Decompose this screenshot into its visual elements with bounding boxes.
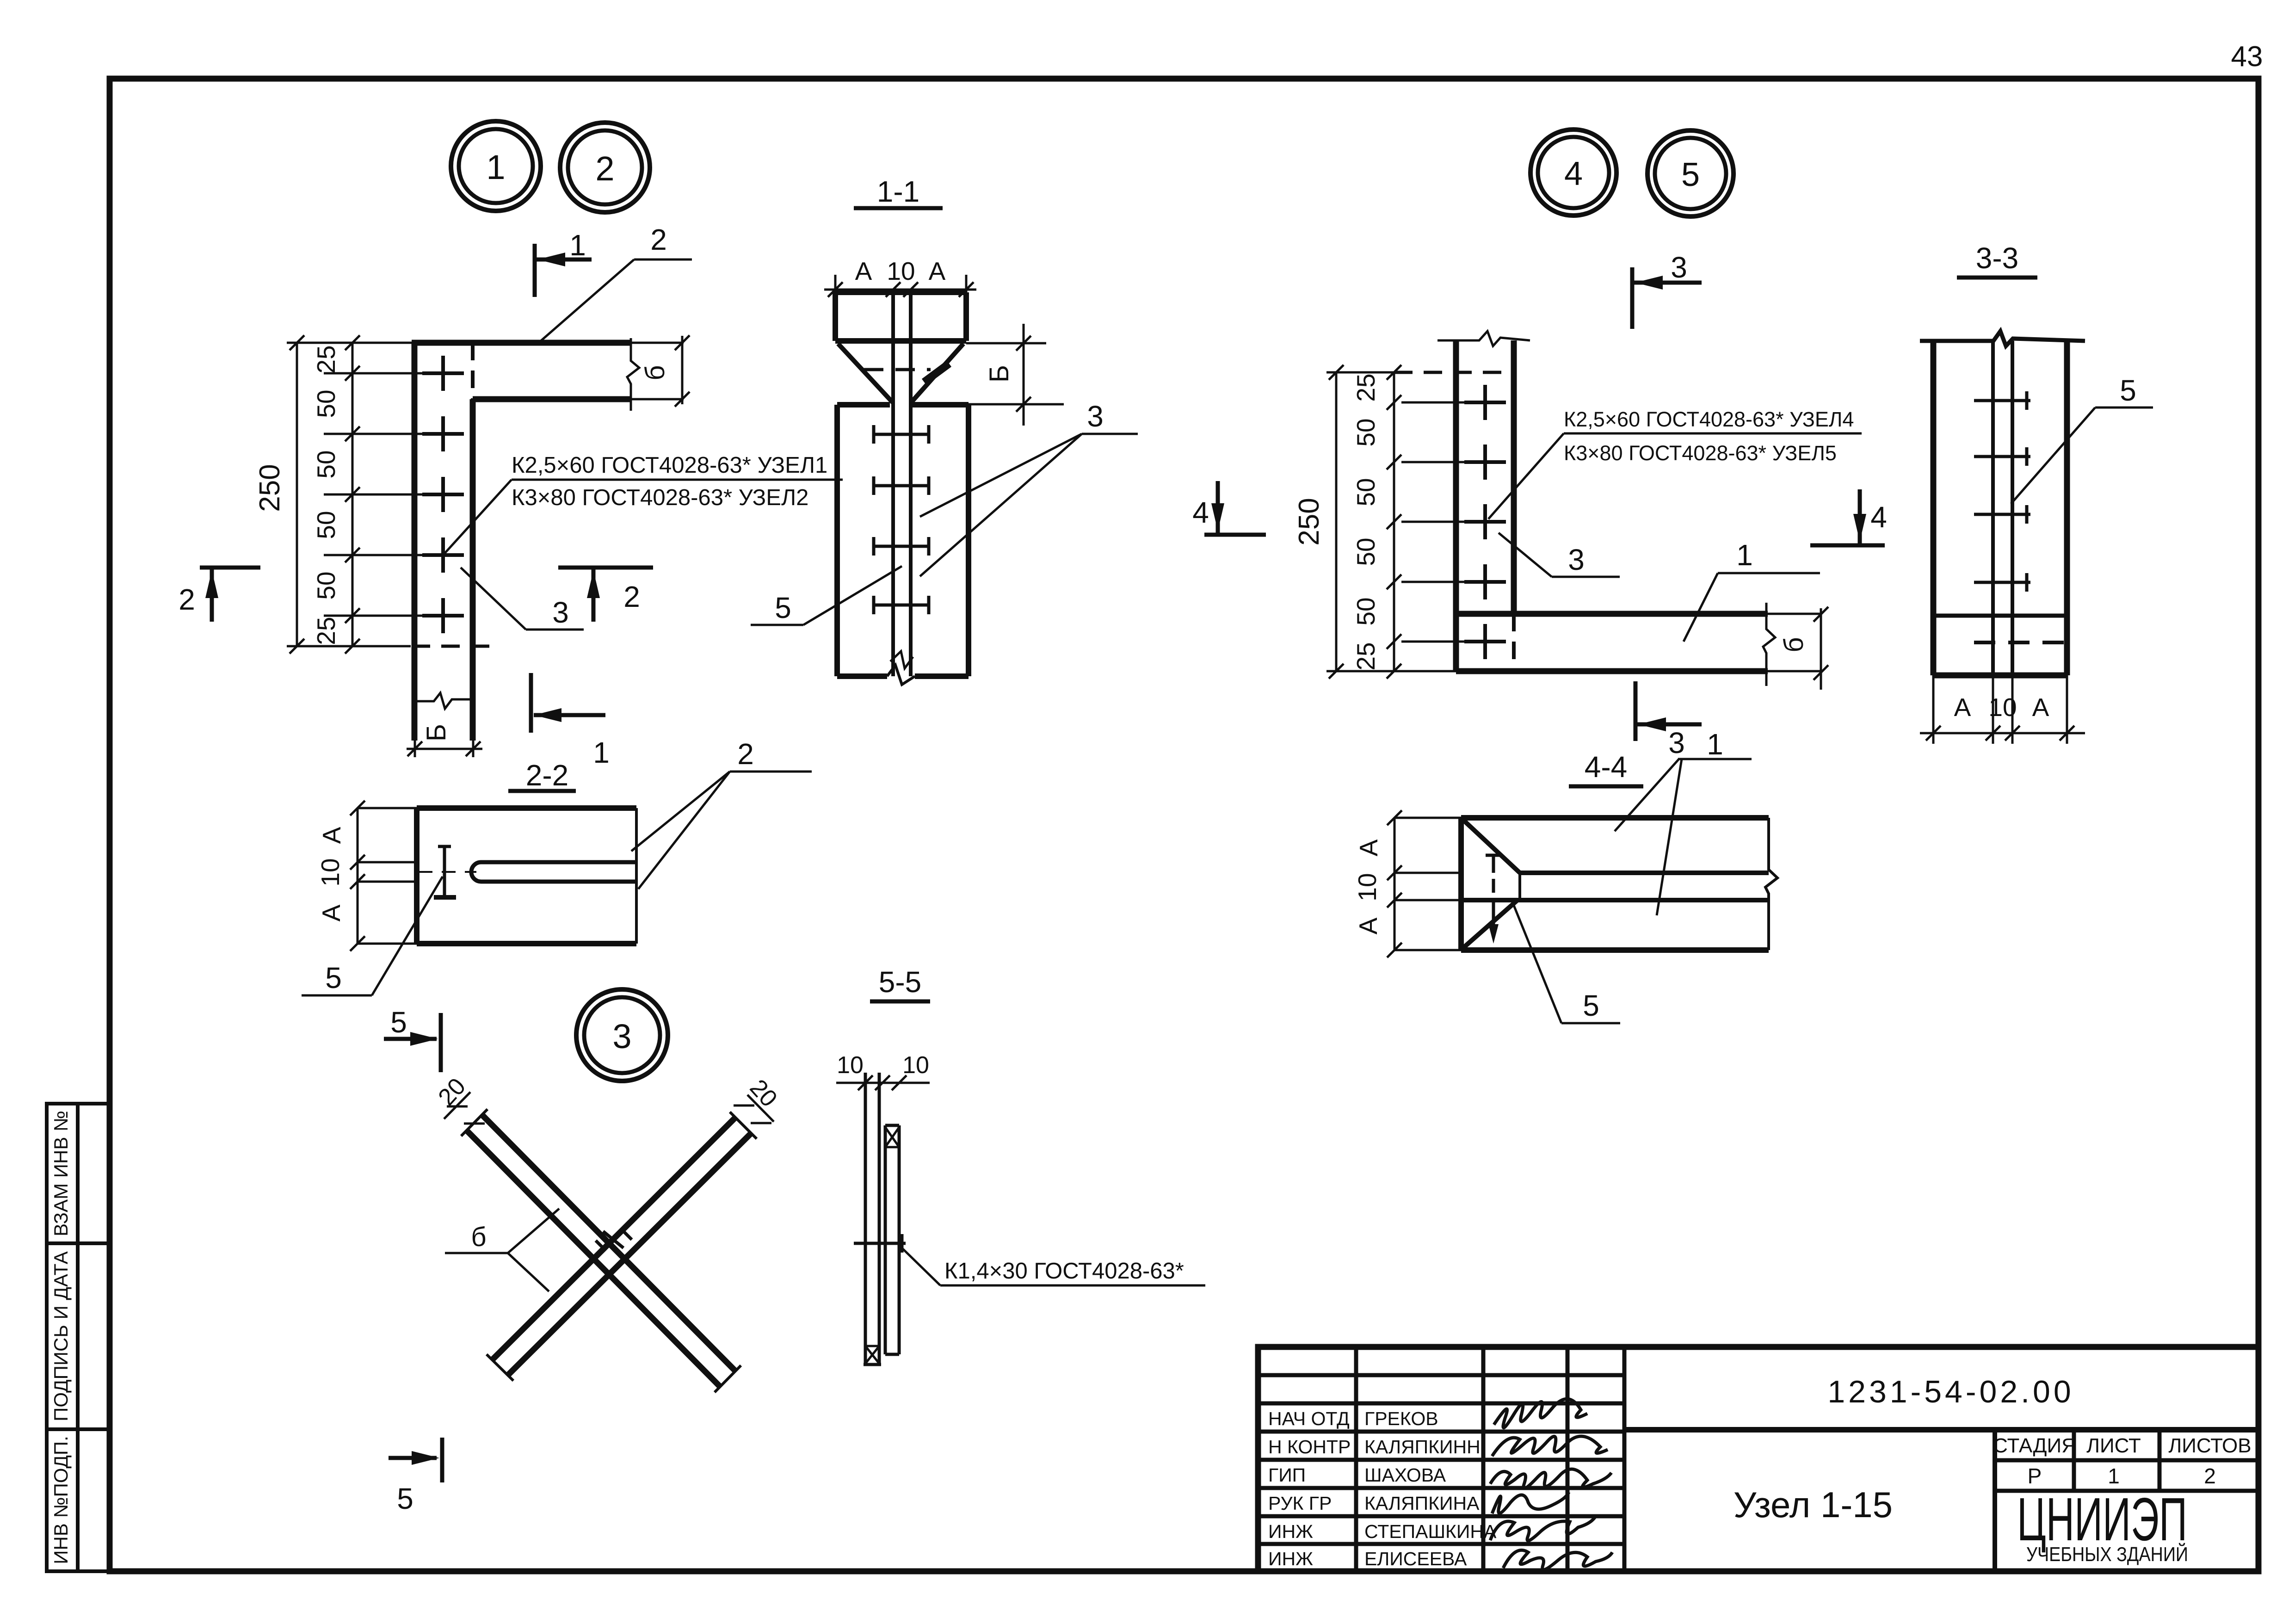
- svg-text:50: 50: [1351, 418, 1380, 446]
- stage table values underline: [1995, 1489, 2258, 1493]
- svg-text:10: 10: [837, 1052, 864, 1079]
- hidden mate line (dashed) at chain bottom: [412, 645, 489, 648]
- brace board B: [492, 1118, 751, 1375]
- svg-text:4-4: 4-4: [1585, 750, 1628, 784]
- svg-text:К1,4×30 ГОСТ4028-63*: К1,4×30 ГОСТ4028-63*: [944, 1259, 1184, 1284]
- hidden nail line (dashed) in bevel: [864, 368, 931, 371]
- svg-text:1: 1: [593, 736, 610, 769]
- leader label 5 (section 2-2): [302, 877, 443, 995]
- nails in board 3 (view 2): [1464, 385, 1506, 659]
- svg-text:1: 1: [569, 228, 586, 262]
- svg-text:3: 3: [1671, 251, 1687, 284]
- signature Степашкина: [1490, 1516, 1596, 1541]
- svg-text:ВЗАМ ИНВ №: ВЗАМ ИНВ №: [50, 1111, 72, 1236]
- left stamp sidebar table: [47, 1104, 110, 1571]
- svg-text:К2,5×60 ГОСТ4028-63* УЗЕЛ4: К2,5×60 ГОСТ4028-63* УЗЕЛ4: [1564, 408, 1854, 431]
- nail (section 2-2): [434, 846, 456, 897]
- svg-text:3-3: 3-3: [1976, 241, 2019, 275]
- svg-text:25: 25: [312, 345, 340, 373]
- svg-text:10: 10: [902, 1052, 929, 1079]
- nail at brace crossing: [596, 1228, 632, 1252]
- end dim 20 (board B top): [734, 1095, 774, 1123]
- svg-text:А: А: [855, 257, 872, 285]
- detail circle 5: [1647, 130, 1734, 216]
- leader label 5 (section 4-4): [1512, 902, 1620, 1023]
- hidden nail dashed (section 3-3): [1974, 641, 2071, 644]
- board strip (right, section 5-5): [885, 1125, 899, 1354]
- section 3-3 top edge with break: [1920, 331, 2085, 346]
- board 2 in section 1-1: [835, 292, 966, 341]
- svg-text:2: 2: [623, 580, 640, 613]
- bevel edges (section 4-4): [1464, 821, 1520, 947]
- board 3 top break line (view 2): [1437, 331, 1530, 346]
- board 2 right end edge: [681, 336, 684, 404]
- svg-text:2: 2: [179, 583, 195, 616]
- svg-text:б: б: [471, 1222, 486, 1252]
- svg-text:А: А: [1954, 693, 1971, 722]
- svg-text:ЛИСТОВ: ЛИСТОВ: [2168, 1434, 2251, 1457]
- svg-text:Б: Б: [984, 365, 1014, 383]
- svg-text:КАЛЯПКИНН: КАЛЯПКИНН: [1364, 1436, 1481, 1457]
- board A end caps: [461, 1109, 741, 1392]
- svg-text:РУК ГР: РУК ГР: [1268, 1493, 1332, 1514]
- svg-text:50: 50: [1351, 478, 1380, 506]
- svg-text:3: 3: [552, 596, 569, 629]
- leader label 2 (section 2-2): [631, 772, 812, 889]
- nail spec leader (view 1): [443, 480, 512, 555]
- section 4-4 outline: [1461, 818, 1769, 950]
- leader label 5 (section 3-3): [2011, 408, 2153, 504]
- nail spec leader (view 2): [1488, 433, 1564, 519]
- svg-text:А: А: [929, 257, 946, 285]
- nail (section 4-4): [1486, 855, 1501, 930]
- detail circle 3: [576, 989, 668, 1081]
- svg-text:3: 3: [612, 1017, 631, 1056]
- name table row lines: [1258, 1373, 1624, 1377]
- svg-text:5: 5: [1583, 989, 1599, 1022]
- stage table header underline: [1995, 1458, 2258, 1463]
- gusset plate lines (section 4-4): [1462, 873, 1769, 900]
- svg-text:5: 5: [390, 1006, 407, 1039]
- section 2-2 outline: [417, 808, 636, 944]
- svg-text:б: б: [1779, 637, 1809, 652]
- svg-text:1231-54-02.00: 1231-54-02.00: [1827, 1374, 2074, 1409]
- svg-text:5: 5: [2120, 374, 2136, 407]
- board 2 plan outline: [412, 343, 684, 399]
- board 3 break symbol: [414, 693, 473, 709]
- svg-text:К2,5×60 ГОСТ4028-63* УЗЕЛ1: К2,5×60 ГОСТ4028-63* УЗЕЛ1: [512, 453, 827, 478]
- gusset bottom break: [890, 651, 913, 668]
- svg-text:Б: Б: [421, 724, 451, 741]
- svg-text:б: б: [640, 365, 670, 380]
- svg-text:ЕЛИСЕЕВА: ЕЛИСЕЕВА: [1364, 1548, 1467, 1569]
- board 2 right end break line: [627, 335, 690, 411]
- dim chain 25/50/50/50/50/25: [324, 335, 451, 654]
- nails in board 3 (plan): [422, 356, 464, 633]
- svg-text:ГИП: ГИП: [1268, 1464, 1306, 1486]
- dim Б (section 1-1): [966, 324, 1064, 426]
- gusset hidden edge dashed (section 2-2): [419, 871, 476, 873]
- svg-text:5: 5: [397, 1482, 413, 1515]
- svg-text:А: А: [317, 827, 346, 844]
- svg-text:ЛИСТ: ЛИСТ: [2086, 1434, 2141, 1457]
- section mark 5 (top): [384, 1013, 441, 1072]
- nails (section 3-3): [1974, 391, 2030, 592]
- svg-text:10: 10: [887, 257, 915, 285]
- svg-text:50: 50: [1351, 597, 1380, 625]
- section mark 4 (left): [1204, 481, 1266, 535]
- gusset plate 5 in section 1-1: [893, 292, 911, 676]
- board 3 plan outline: [414, 343, 473, 741]
- dim А 10 А (section 4-4): [1387, 810, 1462, 957]
- svg-text:2: 2: [595, 149, 614, 188]
- svg-text:5: 5: [325, 961, 342, 994]
- board 3 in section 1-1: [837, 405, 969, 685]
- board 3 right face (section 3-3): [2064, 341, 2070, 675]
- sidebar column divider: [76, 1104, 80, 1571]
- svg-text:К3×80 ГОСТ4028-63* УЗЕЛ5: К3×80 ГОСТ4028-63* УЗЕЛ5: [1564, 441, 1837, 465]
- svg-text:Н КОНТР: Н КОНТР: [1268, 1436, 1351, 1457]
- board 3 hidden edge (dashed): [471, 343, 475, 399]
- svg-text:ШАХОВА: ШАХОВА: [1364, 1464, 1446, 1486]
- hidden mate line dashed (view 2): [1394, 371, 1514, 374]
- svg-text:1: 1: [486, 148, 505, 186]
- signature Шахова: [1490, 1469, 1611, 1488]
- title block outer box: [1258, 1347, 2258, 1571]
- svg-text:5-5: 5-5: [879, 965, 922, 999]
- leader label 3 (section 1-1): [920, 434, 1138, 576]
- svg-text:ИНЖ: ИНЖ: [1268, 1521, 1313, 1542]
- svg-text:43: 43: [2231, 41, 2263, 73]
- svg-text:250: 250: [1293, 498, 1325, 545]
- dim chain (view 2): [1387, 365, 1501, 679]
- section 4-4 right break edge: [1765, 818, 1777, 950]
- nail spec underline (view 2): [1564, 432, 1862, 435]
- svg-text:А: А: [1354, 839, 1383, 856]
- overall dim 250 (view 2): [1326, 365, 1456, 679]
- svg-text:50: 50: [312, 571, 340, 599]
- board 1 right end edge: [1814, 607, 1828, 690]
- nailed zone top (hatch): [885, 1127, 899, 1147]
- board 2 width dim ticks: [675, 335, 690, 350]
- detail circle 2: [560, 123, 650, 212]
- signature Грекова: [1494, 1399, 1587, 1427]
- svg-text:А: А: [2032, 693, 2049, 722]
- dim А 10 А (section 3-3): [1920, 675, 2085, 744]
- section mark 1 (bottom): [531, 673, 605, 733]
- signature Елисеева: [1503, 1550, 1612, 1569]
- board strip (left, section 5-5): [864, 1073, 881, 1365]
- brace board A: [467, 1115, 735, 1387]
- board 3 plan outline (view 2): [1456, 340, 1514, 671]
- svg-text:10: 10: [1353, 873, 1382, 901]
- svg-text:4: 4: [1870, 500, 1887, 534]
- leader label 3 (view 2): [1499, 533, 1620, 577]
- bottom edge (section 3-3): [1933, 673, 2067, 679]
- section mark 5 (bottom): [389, 1438, 442, 1482]
- svg-text:50: 50: [1351, 537, 1380, 566]
- svg-text:КАЛЯПКИНА: КАЛЯПКИНА: [1364, 1493, 1480, 1514]
- board 3 hidden edge dashed (view 2): [1512, 614, 1516, 671]
- svg-text:2: 2: [650, 223, 667, 256]
- gusset plate 5 (section 2-2): [471, 862, 636, 882]
- svg-text:50: 50: [312, 511, 340, 539]
- svg-text:Узел 1-15: Узел 1-15: [1734, 1484, 1893, 1525]
- svg-text:4: 4: [1564, 155, 1583, 192]
- board 1 width dim ticks: [1814, 607, 1828, 622]
- svg-text:3: 3: [1568, 543, 1585, 576]
- svg-text:ГРЕКОВ: ГРЕКОВ: [1364, 1408, 1438, 1429]
- board 3 left face (section 3-3): [1931, 341, 1937, 675]
- leader label б (brace width): [445, 1209, 559, 1291]
- svg-text:СТЕПАШКИНА: СТЕПАШКИНА: [1364, 1521, 1497, 1542]
- nail spec underline: [512, 479, 843, 481]
- stage table verticals: [1993, 1430, 1997, 1571]
- svg-text:ИНЖ: ИНЖ: [1268, 1548, 1313, 1569]
- signature Каляпкин: [1492, 1436, 1608, 1456]
- leader label 2 (board 2): [537, 259, 692, 345]
- title block vertical: role column: [1354, 1347, 1358, 1571]
- signature Каляпкина: [1492, 1492, 1569, 1513]
- svg-text:10: 10: [1988, 693, 2017, 722]
- detail circle 4: [1530, 130, 1616, 216]
- svg-text:2-2: 2-2: [526, 759, 569, 792]
- board 3 width dim Б: [407, 735, 482, 757]
- svg-text:2: 2: [2204, 1464, 2216, 1488]
- svg-text:50: 50: [312, 389, 340, 418]
- sidebar row divider 2: [47, 1427, 110, 1431]
- section mark 4 (right): [1810, 489, 1885, 545]
- svg-text:5: 5: [1681, 156, 1700, 193]
- bevel nail (thick tick): [924, 364, 949, 382]
- svg-text:25: 25: [1351, 373, 1380, 401]
- svg-text:УЧЕБНЫХ ЗДАНИЙ: УЧЕБНЫХ ЗДАНИЙ: [2026, 1542, 2188, 1566]
- svg-text:25: 25: [312, 617, 340, 645]
- title block vertical: narrow column: [1623, 1347, 1627, 1571]
- board 1 plan outline (view 2): [1456, 614, 1822, 671]
- nailed zone bottom (hatch): [865, 1346, 879, 1364]
- svg-text:Р: Р: [2028, 1464, 2042, 1488]
- title block vertical: signature column: [1566, 1347, 1570, 1571]
- svg-text:3: 3: [1087, 400, 1104, 433]
- detail circle 1: [451, 121, 541, 211]
- svg-text:А: А: [1354, 917, 1382, 934]
- svg-text:10: 10: [316, 858, 345, 886]
- nails in section 1-1: [874, 425, 929, 614]
- svg-text:5: 5: [775, 591, 791, 624]
- svg-text:СТАДИЯ: СТАДИЯ: [1993, 1434, 2076, 1457]
- svg-text:50: 50: [312, 450, 340, 478]
- board 3 bevel edges in section 1-1: [838, 344, 963, 402]
- leader label 1 (view 2): [1684, 573, 1820, 642]
- gusset plate lines (section 3-3): [1991, 341, 1995, 675]
- section mark 2 (right): [558, 568, 653, 622]
- board 1 right end break line: [1763, 603, 1775, 686]
- nail (section 5-5): [854, 1234, 906, 1253]
- dim А 10 А (section 2-2): [350, 801, 417, 951]
- svg-text:250: 250: [254, 464, 286, 512]
- board 1 top edge (section 3-3): [1933, 614, 2067, 618]
- svg-text:К3×80 ГОСТ4028-63* УЗЕЛ2: К3×80 ГОСТ4028-63* УЗЕЛ2: [512, 485, 808, 510]
- section mark 3 (bottom): [1635, 681, 1702, 741]
- section mark 2 (left): [200, 568, 260, 622]
- section mark 3 (top): [1632, 267, 1702, 329]
- svg-text:ПОДПИСЬ И ДАТА: ПОДПИСЬ И ДАТА: [50, 1251, 72, 1421]
- overall dim 250: [287, 335, 414, 654]
- end dim 20 (board A top): [444, 1092, 485, 1124]
- svg-text:1: 1: [1707, 728, 1723, 761]
- svg-text:ИНВ №ПОДП.: ИНВ №ПОДП.: [50, 1436, 72, 1564]
- sidebar row divider 1: [47, 1241, 110, 1245]
- svg-text:1-1: 1-1: [877, 175, 920, 208]
- svg-text:1: 1: [2108, 1464, 2120, 1488]
- svg-text:НАЧ ОТД: НАЧ ОТД: [1268, 1408, 1350, 1429]
- nail spec leader (section 5-5): [903, 1249, 1205, 1285]
- doc number box bottom line: [1624, 1427, 2258, 1433]
- svg-text:1: 1: [1736, 538, 1753, 572]
- leader label 5 (section 1-1): [751, 566, 902, 625]
- leader label 3 (board 3): [461, 568, 584, 630]
- svg-text:4: 4: [1192, 496, 1209, 529]
- board B end caps: [487, 1112, 757, 1381]
- svg-text:2: 2: [737, 737, 754, 771]
- title block vertical: name column: [1481, 1347, 1486, 1571]
- svg-text:25: 25: [1351, 642, 1380, 670]
- section mark 1 (top): [535, 244, 592, 297]
- svg-text:3: 3: [1668, 726, 1685, 760]
- svg-text:А: А: [317, 904, 345, 921]
